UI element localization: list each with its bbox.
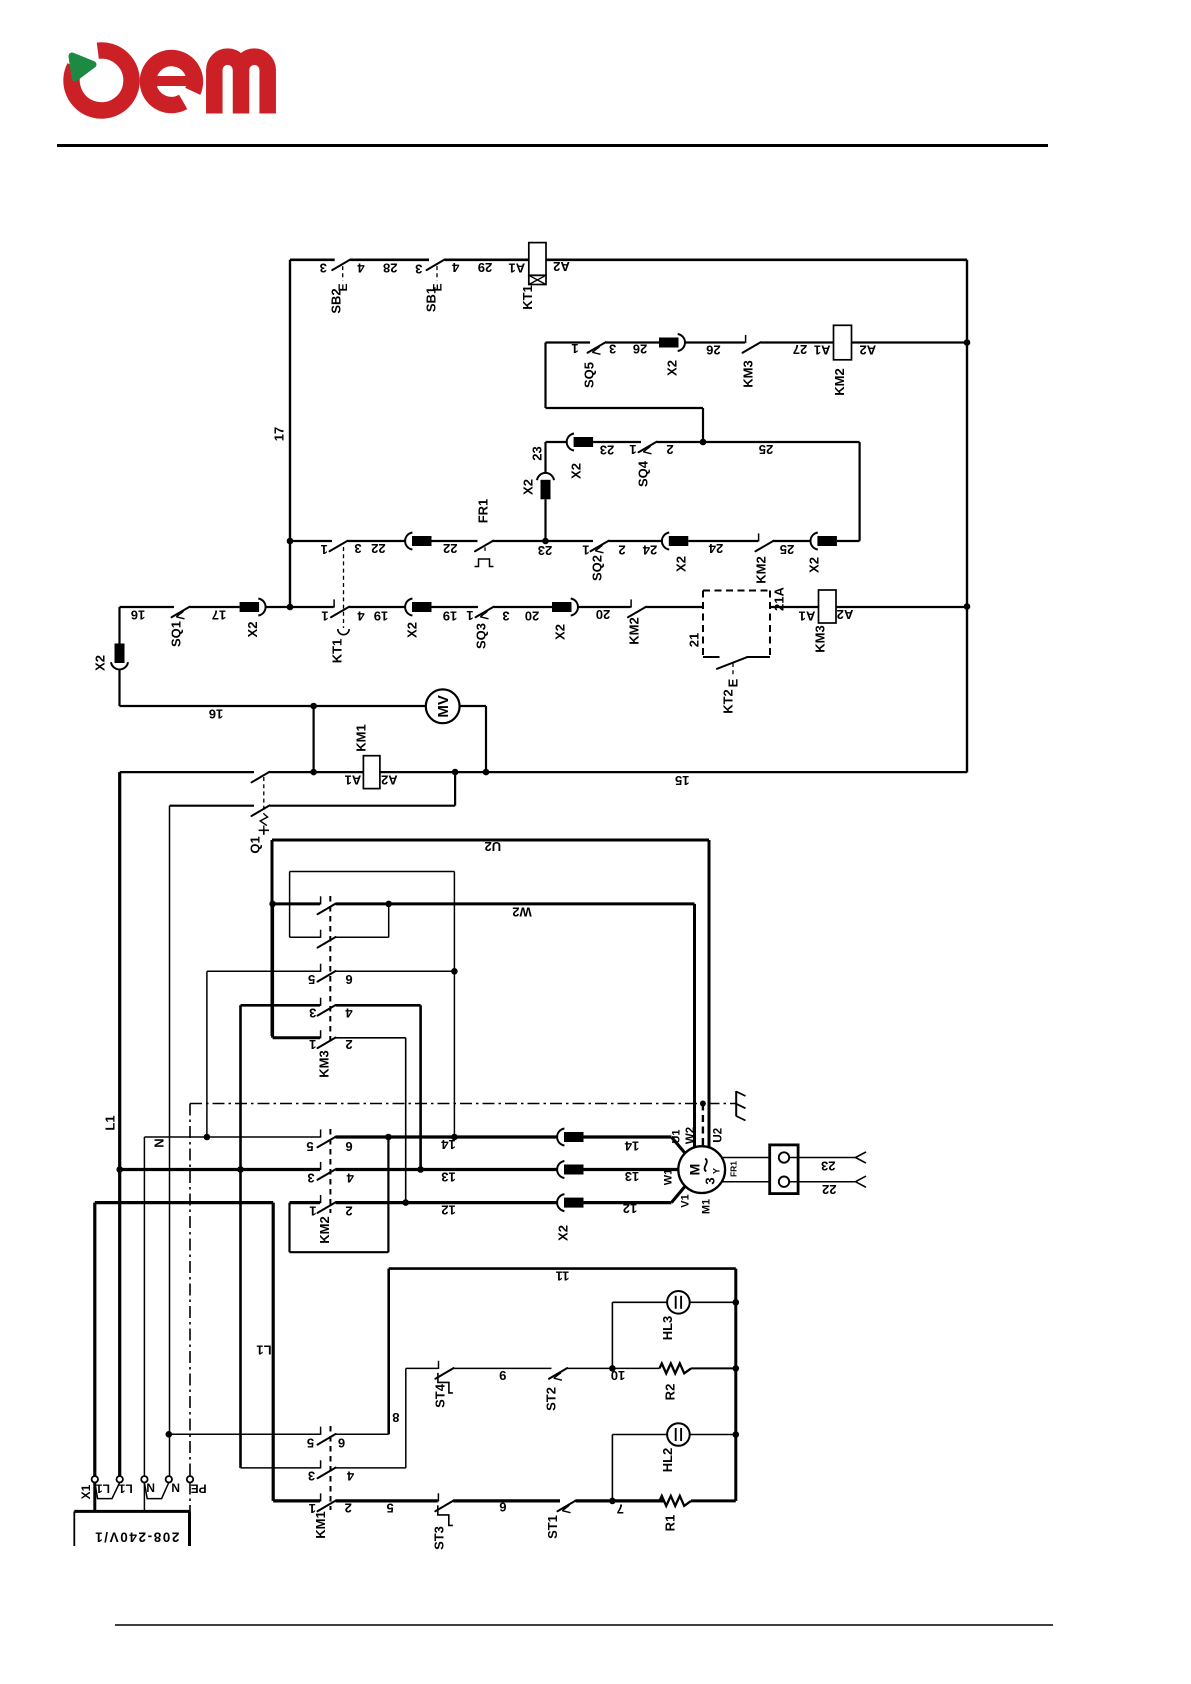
svg-text:KT1: KT1 — [520, 285, 535, 310]
svg-text:4: 4 — [345, 1005, 353, 1020]
svg-text:KM3: KM3 — [813, 625, 828, 652]
svg-text:X2: X2 — [807, 557, 822, 573]
svg-text:R1: R1 — [663, 1515, 678, 1532]
svg-text:4: 4 — [357, 608, 365, 623]
svg-text:24: 24 — [642, 542, 657, 557]
svg-text:5: 5 — [308, 972, 315, 987]
svg-text:2: 2 — [618, 542, 625, 557]
svg-text:3: 3 — [702, 1177, 717, 1184]
svg-text:FR1: FR1 — [729, 1161, 739, 1177]
svg-text:X1: X1 — [79, 1484, 93, 1499]
svg-text:3: 3 — [307, 1170, 314, 1185]
svg-text:12: 12 — [623, 1201, 637, 1216]
svg-text:A1: A1 — [508, 261, 525, 276]
svg-text:X2: X2 — [245, 622, 260, 638]
svg-text:E: E — [726, 678, 741, 687]
svg-text:3: 3 — [320, 261, 327, 276]
svg-text:W1: W1 — [662, 1169, 674, 1186]
svg-text:X2: X2 — [553, 624, 568, 640]
svg-text:R2: R2 — [663, 1384, 678, 1401]
svg-text:L1: L1 — [256, 1342, 271, 1357]
svg-text:6: 6 — [345, 1139, 352, 1154]
svg-text:A2: A2 — [553, 259, 570, 274]
svg-text:208-240V/1: 208-240V/1 — [94, 1530, 180, 1545]
svg-text:HL2: HL2 — [660, 1448, 675, 1473]
svg-text:KT1: KT1 — [330, 639, 345, 664]
svg-text:3: 3 — [415, 261, 422, 276]
svg-text:27: 27 — [793, 342, 807, 357]
svg-text:KM2: KM2 — [832, 368, 847, 395]
svg-text:1: 1 — [571, 341, 578, 356]
svg-text:SQ3: SQ3 — [474, 623, 489, 649]
svg-text:5: 5 — [306, 1139, 313, 1154]
svg-text:SQ5: SQ5 — [582, 362, 597, 388]
svg-text:6: 6 — [338, 1436, 345, 1451]
svg-text:L1: L1 — [96, 1481, 110, 1495]
svg-text:11: 11 — [556, 1269, 570, 1284]
svg-text:19: 19 — [374, 608, 388, 623]
svg-text:U2: U2 — [484, 839, 501, 854]
svg-text:KM3: KM3 — [741, 360, 756, 387]
svg-text:SB2: SB2 — [329, 288, 344, 313]
svg-text:1: 1 — [629, 442, 636, 457]
svg-text:KM3: KM3 — [317, 1050, 332, 1077]
svg-text:SQ2: SQ2 — [590, 555, 605, 581]
svg-text:2: 2 — [666, 442, 673, 457]
svg-text:23: 23 — [530, 446, 545, 460]
svg-text:X2: X2 — [569, 463, 584, 479]
svg-text:17: 17 — [272, 427, 287, 441]
svg-text:SQ4: SQ4 — [636, 460, 651, 487]
svg-text:X2: X2 — [665, 360, 680, 376]
svg-text:23: 23 — [600, 442, 614, 457]
svg-text:M: M — [687, 1164, 703, 1176]
svg-text:4: 4 — [346, 1170, 354, 1185]
svg-text:22: 22 — [371, 541, 385, 556]
svg-text:V1: V1 — [680, 1194, 692, 1207]
svg-text:9: 9 — [499, 1368, 506, 1383]
svg-text:23: 23 — [538, 543, 552, 558]
svg-text:3: 3 — [308, 1468, 315, 1483]
svg-text:1: 1 — [321, 542, 328, 557]
svg-text:N: N — [151, 1138, 166, 1147]
svg-text:1: 1 — [309, 1203, 316, 1218]
svg-text:PE: PE — [191, 1481, 207, 1495]
svg-text:26: 26 — [633, 342, 647, 357]
svg-text:M1: M1 — [701, 1199, 713, 1214]
svg-text:ST3: ST3 — [432, 1526, 447, 1550]
svg-text:28: 28 — [383, 261, 397, 276]
svg-text:X2: X2 — [674, 556, 689, 572]
svg-text:A2: A2 — [859, 343, 876, 358]
svg-text:W2: W2 — [512, 904, 532, 919]
svg-text:SB1: SB1 — [423, 287, 438, 312]
svg-text:A1: A1 — [799, 608, 816, 623]
svg-text:3: 3 — [502, 608, 509, 623]
svg-text:X2: X2 — [521, 479, 536, 495]
svg-text:ST1: ST1 — [545, 1515, 560, 1539]
svg-text:X2: X2 — [405, 622, 420, 638]
svg-text:Q1: Q1 — [248, 836, 263, 853]
svg-text:A1: A1 — [814, 343, 831, 358]
svg-text:29: 29 — [478, 260, 492, 275]
svg-text:MV: MV — [435, 695, 452, 718]
svg-text:L1: L1 — [103, 1115, 118, 1130]
svg-text:Y: Y — [712, 1168, 722, 1174]
svg-text:1: 1 — [309, 1501, 316, 1516]
svg-text:KT2: KT2 — [721, 689, 736, 714]
svg-text:13: 13 — [441, 1169, 455, 1184]
svg-text:23: 23 — [821, 1159, 835, 1174]
svg-text:2: 2 — [345, 1501, 352, 1516]
svg-text:25: 25 — [759, 442, 773, 457]
svg-text:KM2: KM2 — [627, 617, 642, 644]
svg-text:6: 6 — [345, 972, 352, 987]
svg-text:25: 25 — [780, 542, 794, 557]
svg-text:6: 6 — [499, 1499, 506, 1514]
svg-text:20: 20 — [525, 608, 539, 623]
svg-text:5: 5 — [307, 1436, 314, 1451]
svg-text:3: 3 — [609, 342, 616, 357]
svg-text:HL3: HL3 — [660, 1316, 675, 1341]
svg-text:16: 16 — [209, 706, 223, 721]
svg-text:N: N — [146, 1481, 155, 1495]
svg-text:KM2: KM2 — [317, 1216, 332, 1243]
svg-text:4: 4 — [357, 261, 365, 276]
svg-text:ST4: ST4 — [433, 1383, 448, 1408]
svg-text:3: 3 — [309, 1005, 316, 1020]
svg-text:W2: W2 — [685, 1127, 697, 1144]
svg-text:FR1: FR1 — [476, 499, 491, 524]
svg-text:U2: U2 — [712, 1128, 724, 1143]
svg-text:KM1: KM1 — [354, 724, 369, 751]
svg-text:KM2: KM2 — [754, 556, 769, 583]
svg-text:N: N — [171, 1481, 180, 1495]
svg-text:13: 13 — [625, 1169, 639, 1184]
svg-text:1: 1 — [321, 608, 328, 623]
svg-text:26: 26 — [706, 343, 720, 358]
svg-text:A1: A1 — [345, 773, 362, 788]
svg-text:ST2: ST2 — [544, 1387, 559, 1411]
svg-text:4: 4 — [346, 1468, 354, 1483]
svg-text:14: 14 — [441, 1137, 456, 1152]
svg-text:24: 24 — [708, 541, 723, 556]
svg-text:3: 3 — [354, 541, 361, 556]
svg-text:4: 4 — [451, 260, 459, 275]
svg-text:1: 1 — [582, 542, 589, 557]
svg-text:22: 22 — [822, 1182, 836, 1197]
svg-text:17: 17 — [212, 607, 226, 622]
svg-text:U1: U1 — [671, 1129, 683, 1143]
svg-text:19: 19 — [443, 608, 457, 623]
svg-text:8: 8 — [392, 1410, 399, 1425]
svg-text:14: 14 — [624, 1138, 639, 1153]
svg-text:SQ1: SQ1 — [169, 621, 184, 647]
svg-text:21: 21 — [687, 633, 702, 647]
svg-text:21A: 21A — [772, 586, 787, 610]
svg-text:2: 2 — [345, 1203, 352, 1218]
svg-text:5: 5 — [386, 1501, 393, 1516]
svg-text:10: 10 — [611, 1368, 625, 1383]
svg-text:22: 22 — [443, 541, 457, 556]
svg-text:7: 7 — [617, 1501, 624, 1516]
svg-text:1: 1 — [466, 608, 473, 623]
svg-text:A2: A2 — [381, 773, 398, 788]
svg-text:X2: X2 — [93, 655, 108, 671]
svg-text:16: 16 — [131, 608, 145, 623]
svg-text:1: 1 — [309, 1037, 316, 1052]
svg-text:20: 20 — [596, 607, 610, 622]
svg-text:15: 15 — [675, 773, 689, 788]
svg-text:A2: A2 — [837, 607, 854, 622]
svg-text:2: 2 — [345, 1037, 352, 1052]
svg-text:12: 12 — [441, 1202, 455, 1217]
svg-text:L1: L1 — [118, 1481, 132, 1495]
svg-text:X2: X2 — [556, 1225, 571, 1241]
